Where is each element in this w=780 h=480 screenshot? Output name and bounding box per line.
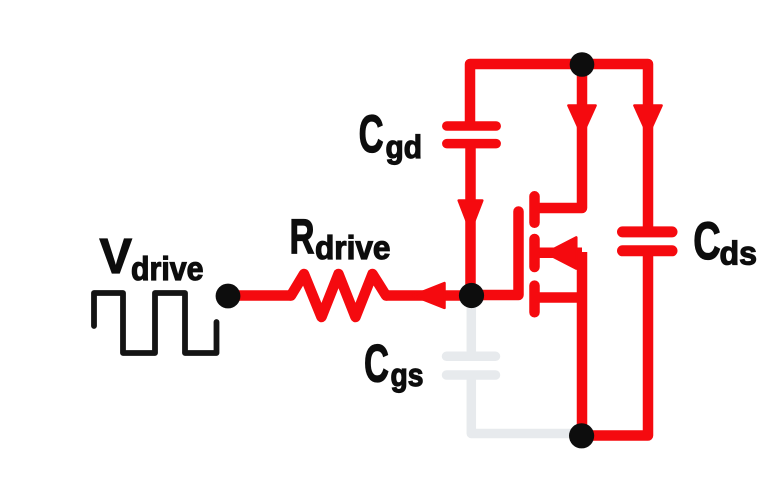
label Cgd: [359, 105, 422, 165]
svg-text:R: R: [290, 209, 315, 264]
resistor Rdrive zigzag: [291, 274, 386, 317]
arrow on gate wire pointing left: [413, 283, 445, 308]
svg-text:C: C: [364, 335, 389, 394]
label Vdrive: [100, 229, 204, 288]
capacitor Cgs wire from gate node: [447, 298, 579, 434]
wire Cgd lower stub to gate node: [465, 144, 476, 296]
svg-text:ds: ds: [720, 236, 758, 273]
transistor Q1 channel dashes: [529, 196, 540, 312]
transistor Q1 source bar: [535, 292, 583, 303]
svg-text:V: V: [100, 229, 133, 284]
capacitor Cgd plates: [447, 126, 496, 144]
svg-text:gd: gd: [386, 129, 423, 165]
svg-text:C: C: [693, 212, 721, 271]
wire Cgs to source node (gray bottom): [471, 380, 578, 434]
wire Cds bottom branch and bottom rail to source node: [582, 254, 648, 436]
label Cds: [693, 212, 757, 272]
transistor Q1 gate bar and gate leg: [472, 212, 519, 296]
svg-text:gs: gs: [391, 357, 424, 393]
wire gate horizontal from drive node: [228, 290, 291, 301]
transistor Q1 body bar: [536, 247, 582, 258]
arrow on Cgd stub pointing down: [459, 201, 483, 232]
label Cgs: [364, 335, 424, 394]
wire MOSFET source vertical to bottom node: [577, 252, 588, 436]
wire drain branch to MOSFET drain: [536, 64, 582, 208]
node C drain top: [570, 52, 595, 77]
label Rdrive: [290, 209, 391, 267]
transistor Q1 body arrow pointing left: [546, 237, 576, 268]
arrow on drain branch pointing down: [568, 106, 595, 136]
node D source bottom: [569, 423, 594, 448]
wire top drain rail with Cgd and Cds stubs: [470, 64, 648, 228]
capacitor Cds plates: [623, 232, 673, 251]
Vdrive square wave symbol: [94, 293, 217, 353]
wire resistor to gate node: [386, 290, 472, 301]
capacitor Cgs plates: [447, 356, 496, 375]
arrow on Cds branch pointing down: [634, 106, 661, 136]
node B gate: [459, 283, 484, 308]
svg-text:C: C: [359, 105, 384, 164]
svg-text:drive: drive: [131, 251, 204, 288]
svg-text:drive: drive: [315, 230, 391, 267]
node A drive output: [216, 284, 241, 309]
